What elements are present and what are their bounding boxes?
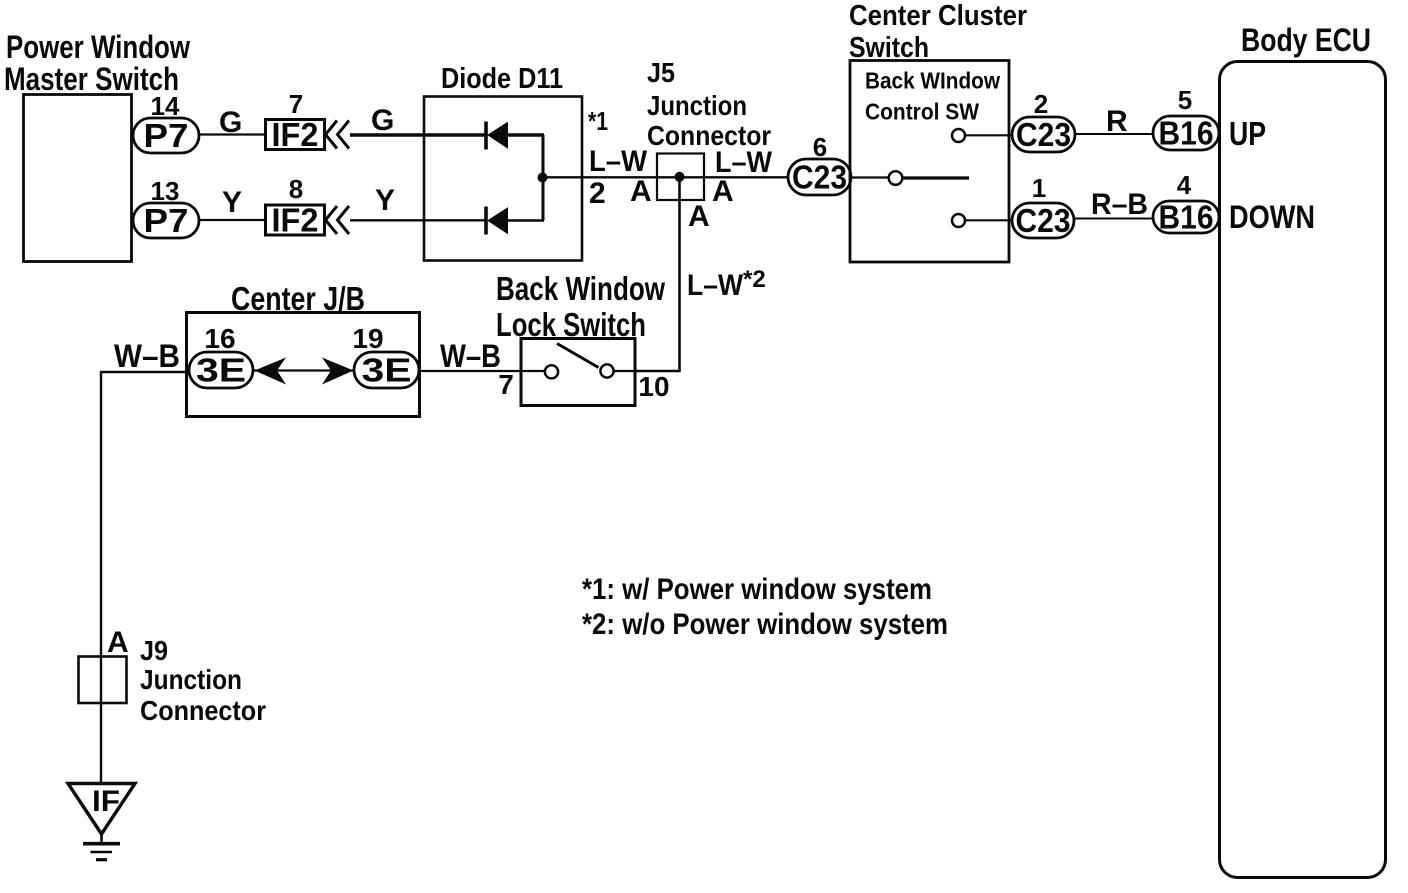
svg-text:3E: 3E — [196, 352, 246, 389]
svg-text:10: 10 — [638, 371, 669, 402]
svg-text:*1: *1 — [588, 106, 608, 136]
connector arrow right — [322, 358, 354, 385]
connector C23 pin 2 — [1012, 116, 1075, 153]
wire from C23-6 into cluster switch — [851, 176, 889, 178]
svg-text:7: 7 — [498, 369, 514, 400]
wire R-B from C23-1 to B16-4 — [1074, 218, 1153, 220]
svg-text:R–B: R–B — [1091, 188, 1148, 221]
body ECU box — [1220, 62, 1386, 878]
svg-text:J5: J5 — [647, 57, 675, 88]
connector 3E pin 19 — [354, 352, 419, 389]
center J/B box — [187, 313, 420, 417]
wire from J5 down to back window lock switch — [635, 177, 680, 371]
note *1 *2 — [582, 573, 948, 641]
lock switch wire left — [521, 370, 545, 372]
svg-text:W–B: W–B — [440, 338, 501, 374]
svg-text:IF2: IF2 — [272, 202, 319, 239]
connector arrow left — [255, 358, 287, 385]
svg-text:*2: w/o Power window system: *2: w/o Power window system — [582, 608, 948, 641]
diode D11 bottom element — [486, 207, 544, 235]
svg-text:DOWN: DOWN — [1229, 199, 1315, 235]
junction connector J9 — [79, 657, 127, 704]
wire G from P7-14 to IF2-7 — [199, 133, 266, 135]
svg-text:Body ECU: Body ECU — [1241, 22, 1371, 58]
switch contact up — [952, 129, 965, 142]
svg-text:R: R — [1106, 105, 1128, 138]
svg-text:A: A — [107, 626, 129, 659]
svg-text:P7: P7 — [144, 202, 189, 239]
connector B16 pin 5 — [1153, 115, 1219, 152]
wire contact up to C23-2 — [965, 134, 1012, 136]
diode D11 box — [424, 97, 582, 261]
lock switch wire right — [614, 370, 636, 372]
svg-text:3E: 3E — [362, 352, 412, 389]
wire L-W from diode junction to C23-6 — [543, 176, 788, 178]
wire joining diodes — [542, 135, 545, 221]
label Center Cluster Switch — [849, 0, 1027, 64]
svg-text:UP: UP — [1229, 115, 1266, 152]
connector IF2 pin 8 — [266, 202, 325, 239]
svg-text:IF: IF — [92, 785, 120, 818]
svg-text:Back Window: Back Window — [496, 270, 665, 307]
wire Y from IF2-8 to diode D11 — [350, 219, 487, 221]
label Power Window Master Switch — [4, 29, 190, 97]
svg-text:6: 6 — [813, 132, 827, 162]
svg-text:Y: Y — [375, 184, 395, 217]
wire G from IF2-7 to diode D11 — [350, 133, 487, 137]
svg-text:J9: J9 — [140, 635, 168, 666]
svg-text:16: 16 — [204, 323, 235, 354]
svg-text:G: G — [219, 106, 242, 139]
svg-text:G: G — [371, 104, 394, 137]
svg-text:Junction: Junction — [140, 664, 242, 695]
svg-text:*1: w/ Power window system: *1: w/ Power window system — [582, 573, 932, 606]
connector P7 pin 13 — [133, 202, 199, 239]
label J5 Junction Connector — [647, 57, 771, 151]
junction node in J5 — [675, 172, 685, 182]
svg-text:A: A — [630, 175, 652, 208]
svg-text:19: 19 — [352, 323, 383, 354]
svg-text:A: A — [688, 200, 710, 233]
svg-text:7: 7 — [289, 89, 303, 119]
svg-text:Junction: Junction — [647, 90, 747, 121]
connector C23 pin 6 — [788, 159, 851, 196]
svg-text:Y: Y — [222, 186, 242, 219]
lock switch contact left — [545, 365, 558, 378]
wire contact down to C23-1 — [965, 219, 1012, 221]
junction connector J5 — [657, 154, 704, 201]
switch contact down — [952, 214, 965, 227]
diode D11 top element — [486, 122, 544, 150]
switch lever — [903, 176, 970, 179]
label Back WIndow Control SW — [865, 68, 1000, 125]
wire Y from P7-13 to IF2-8 — [199, 219, 266, 221]
svg-text:Center Cluster: Center Cluster — [849, 0, 1027, 32]
wire W-B from 3E-16 to ground run — [101, 372, 189, 783]
lock switch lever — [557, 344, 599, 368]
wire R from C23-2 to B16-5 — [1075, 133, 1153, 135]
back window lock switch box — [521, 339, 635, 406]
connector IF2 pin 7 — [266, 116, 325, 153]
svg-text:Connector: Connector — [140, 695, 266, 726]
svg-text:1: 1 — [1032, 173, 1046, 203]
svg-text:Back WIndow: Back WIndow — [865, 68, 1000, 94]
connector chevrons at IF2-8 — [326, 206, 350, 234]
svg-text:Diode D11: Diode D11 — [441, 63, 563, 95]
connector P7 pin 14 — [133, 117, 199, 154]
svg-text:8: 8 — [289, 174, 303, 204]
svg-text:W–B: W–B — [114, 338, 180, 374]
svg-text:B16: B16 — [1159, 115, 1214, 152]
svg-text:4: 4 — [1177, 170, 1192, 200]
power window master switch body — [24, 95, 132, 262]
svg-text:C23: C23 — [1016, 116, 1071, 153]
svg-text:Power Window: Power Window — [6, 29, 190, 65]
center cluster switch box — [850, 61, 1009, 263]
label Back Window Lock Switch — [496, 270, 665, 343]
svg-text:C23: C23 — [792, 159, 847, 196]
svg-text:5: 5 — [1178, 85, 1192, 115]
connector chevrons at IF2-7 — [326, 121, 350, 149]
svg-text:L–W: L–W — [589, 145, 648, 178]
label J9 Junction Connector — [140, 635, 266, 726]
svg-text:2: 2 — [1034, 89, 1048, 119]
switch common contact — [889, 171, 903, 185]
connector 3E pin 16 — [189, 352, 253, 389]
svg-text:Control SW: Control SW — [865, 99, 979, 125]
svg-text:B16: B16 — [1159, 199, 1214, 236]
svg-text:2: 2 — [589, 177, 606, 210]
connector B16 pin 4 — [1153, 199, 1219, 236]
connector C23 pin 1 — [1012, 202, 1074, 239]
lock switch contact right — [600, 364, 613, 377]
svg-text:IF2: IF2 — [272, 116, 319, 153]
svg-text:P7: P7 — [144, 117, 189, 154]
junction node in diode box — [538, 173, 548, 183]
ground IF — [68, 784, 135, 860]
svg-text:C23: C23 — [1016, 202, 1071, 239]
svg-text:A: A — [712, 175, 734, 208]
wire W-B from 3E-19 to lock switch — [419, 370, 521, 372]
wire between 3E connectors — [253, 369, 354, 371]
